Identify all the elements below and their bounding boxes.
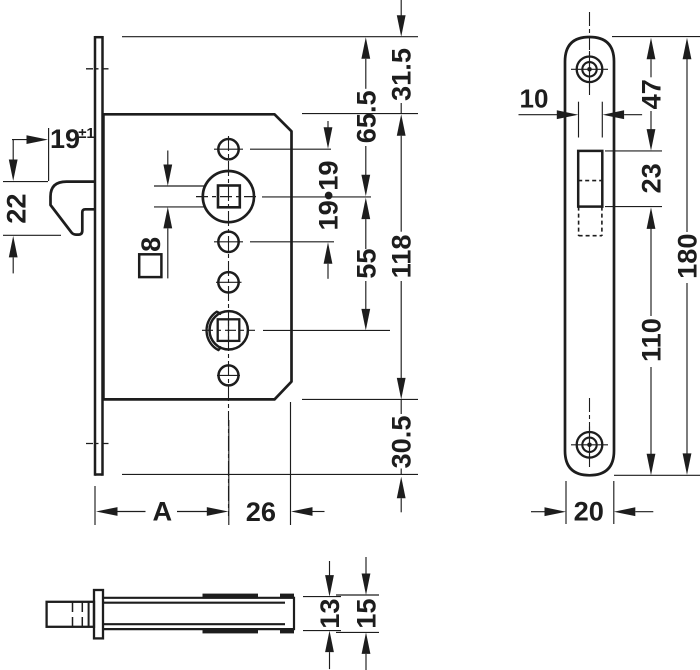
- svg-text:30.5: 30.5: [386, 416, 417, 469]
- faceplate edge view (left view): [95, 36, 103, 476]
- extension line latch top: [605, 150, 662, 152]
- extension line body top: [302, 113, 418, 115]
- svg-text:20: 20: [574, 496, 604, 527]
- dimension 26: [246, 496, 325, 527]
- dimension 55: [350, 198, 381, 331]
- dimension 110: [636, 227, 667, 475]
- latch opening window: [578, 151, 602, 207]
- faceplate bottom screw center tick: [86, 443, 112, 445]
- extension line faceplate left bottom: [94, 486, 96, 525]
- hole H2: [214, 232, 243, 252]
- svg-text:±1: ±1: [78, 125, 95, 142]
- svg-text:31.5: 31.5: [386, 48, 417, 101]
- spindle shaft (bottom view): [47, 602, 94, 627]
- svg-text:180: 180: [672, 234, 700, 279]
- follower F2 cam with square hole: [207, 311, 248, 350]
- hook bolt: [51, 182, 96, 235]
- hole H1: [214, 139, 243, 159]
- extension line latch bottom: [605, 206, 662, 208]
- center line extension bottom: [228, 420, 230, 525]
- svg-text:19: 19: [50, 124, 80, 154]
- dimension 19 plus-minus 1: [12, 124, 95, 181]
- dimension 8 square: [136, 151, 206, 279]
- faceplate cross-section (bottom view): [94, 590, 103, 638]
- svg-text:A: A: [152, 496, 172, 527]
- dimension 15: [336, 557, 382, 670]
- svg-text:10: 10: [520, 83, 549, 113]
- vertical center line of lock body: [228, 136, 230, 516]
- hole H4: [217, 365, 240, 385]
- dimension 23: [636, 163, 667, 229]
- extension line plate top: [612, 36, 700, 38]
- svg-text:47: 47: [636, 79, 667, 109]
- svg-text:19•19: 19•19: [313, 161, 344, 231]
- extension line body bottom: [302, 398, 418, 400]
- dimension 31.5: [386, 0, 417, 114]
- dimension 65.5: [350, 37, 381, 196]
- dimension A: [96, 496, 228, 527]
- svg-text:65.5: 65.5: [350, 90, 381, 143]
- end boss top: [280, 594, 294, 599]
- extension line H1 center: [250, 148, 331, 150]
- extension line F1 center: [196, 196, 371, 198]
- dimension 13: [303, 561, 345, 669]
- follower boss bottom: [203, 628, 259, 633]
- extension line faceplate top: [122, 36, 418, 38]
- svg-text:26: 26: [246, 496, 276, 527]
- bottom screw hole: [571, 427, 608, 464]
- dimension 30.5: [386, 399, 417, 512]
- svg-text:13: 13: [314, 598, 345, 628]
- follower F1 with square spindle hole: [203, 171, 254, 222]
- svg-text:55: 55: [350, 248, 381, 278]
- svg-text:118: 118: [386, 234, 417, 278]
- svg-text:8: 8: [136, 237, 166, 252]
- svg-text:15: 15: [351, 598, 382, 628]
- dimension 47: [636, 38, 667, 151]
- lock case (bottom view): [103, 597, 294, 631]
- plate center line top: [589, 12, 591, 95]
- plate center line bottom: [589, 398, 591, 468]
- dimension 118: [386, 114, 417, 399]
- dimension 180: [672, 38, 700, 475]
- svg-text:110: 110: [636, 318, 667, 362]
- top screw hole: [571, 51, 608, 88]
- dimension 22: [1, 140, 62, 274]
- dimension 19.19: [313, 121, 344, 279]
- end boss bottom: [280, 628, 294, 633]
- extension line body right bottom: [290, 402, 292, 525]
- extension line F2 center: [202, 329, 390, 331]
- follower boss top: [203, 594, 259, 599]
- extension line plate bottom: [614, 474, 700, 476]
- striking plate outline (front view): [565, 37, 614, 475]
- lock body outline: [103, 114, 291, 399]
- latch bolt hidden lines: [579, 207, 602, 236]
- extension line H2 center: [250, 241, 334, 243]
- faceplate top screw center tick: [86, 68, 111, 70]
- dimension 20: [531, 481, 653, 527]
- svg-text:23: 23: [636, 163, 667, 193]
- svg-text:22: 22: [1, 193, 32, 223]
- hole H3: [216, 272, 242, 292]
- extension line faceplate bottom: [122, 473, 418, 475]
- dimension 10: [519, 83, 643, 137]
